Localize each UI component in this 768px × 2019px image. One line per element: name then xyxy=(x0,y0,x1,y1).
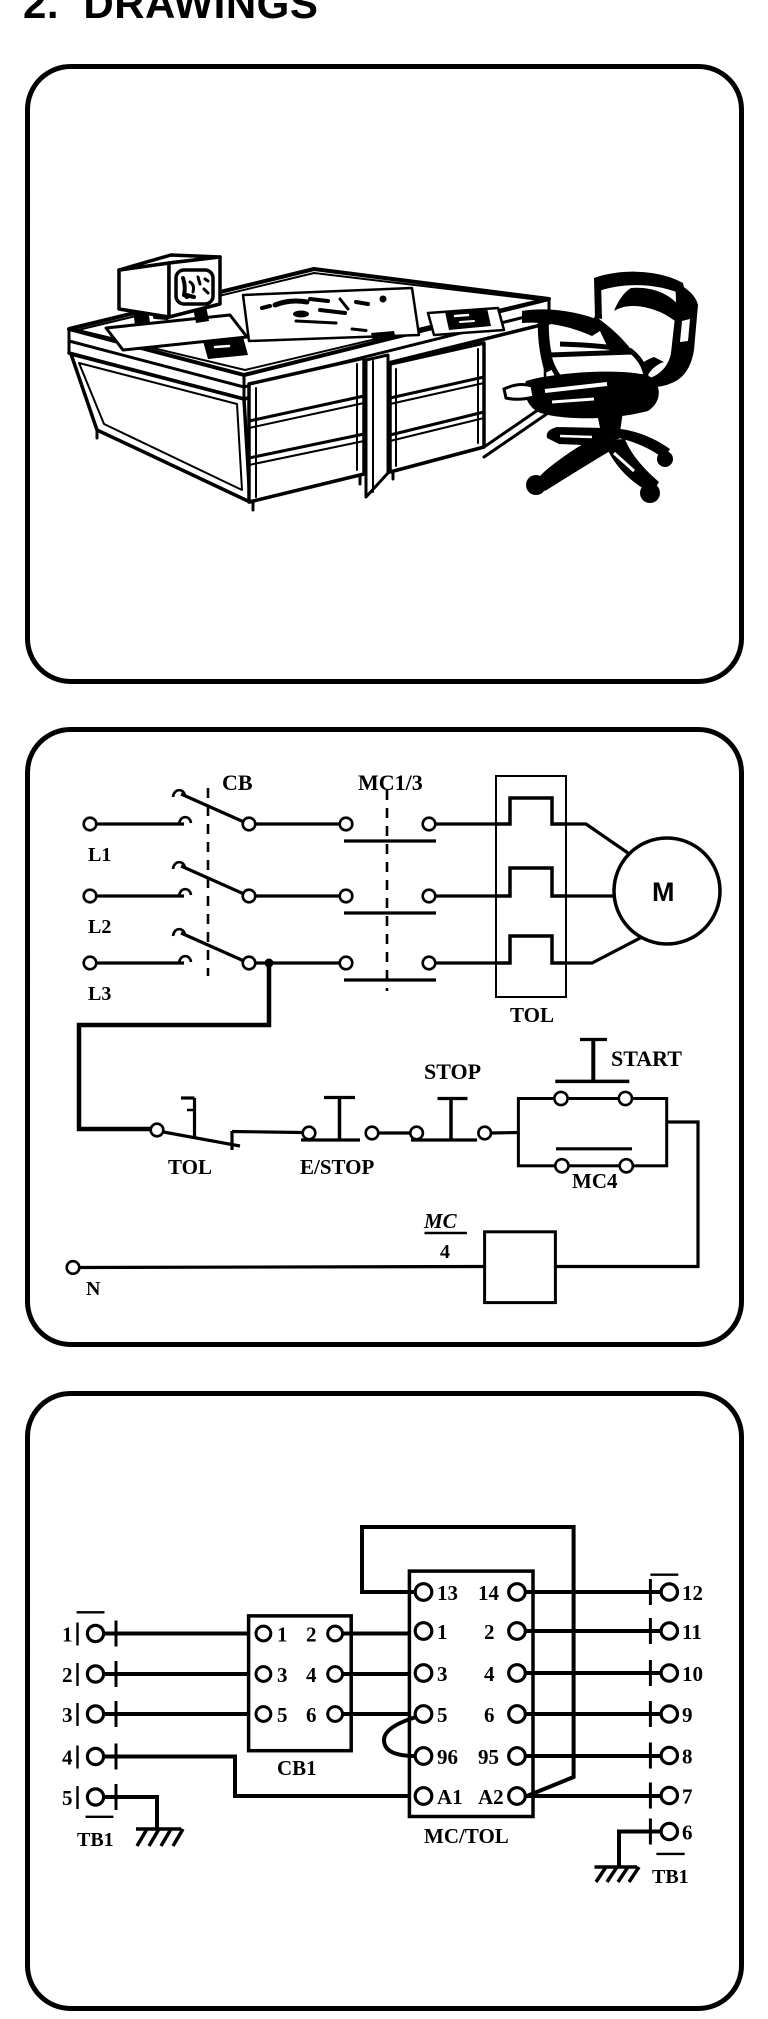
svg-text:10: 10 xyxy=(682,1662,703,1686)
chair back post xyxy=(594,316,639,373)
TB1 right tick 11 xyxy=(649,1618,652,1644)
monitor front bezel xyxy=(169,257,220,317)
junction L3 xyxy=(265,959,274,968)
MC4 top-right terminal xyxy=(619,1092,632,1105)
wire CB1 to MC/TOL xyxy=(343,1672,416,1676)
wire L3 to CB xyxy=(97,961,185,964)
wire MC to TOL L1 xyxy=(436,822,497,825)
E/STOP plunger xyxy=(338,1098,342,1139)
wire STOP to MC4 box xyxy=(491,1131,518,1135)
svg-text:MC4: MC4 xyxy=(572,1169,618,1193)
TB1 right terminal 12 xyxy=(661,1584,677,1600)
dark item on desk left xyxy=(203,337,248,359)
MC/TOL terminal 2 xyxy=(509,1623,526,1640)
TB1 right tick 12 xyxy=(649,1579,652,1605)
E/STOP contact bar xyxy=(301,1138,360,1141)
MC/TOL block xyxy=(409,1571,533,1816)
chair left arm support xyxy=(538,313,556,373)
wire CB1 to MC/TOL xyxy=(343,1712,416,1716)
TOL heater L3 xyxy=(496,936,566,963)
chair backrest left edge xyxy=(594,278,602,319)
chair base leg right xyxy=(614,429,670,459)
svg-text:MC/TOL: MC/TOL xyxy=(424,1824,509,1848)
CB pole L1 lower jaw xyxy=(179,817,191,824)
wire MC to TOL L3 xyxy=(436,961,497,964)
svg-text:4: 4 xyxy=(484,1662,495,1686)
CB pole L2 blade xyxy=(181,866,244,894)
svg-text:STOP: STOP xyxy=(424,1059,481,1084)
MC/TOL terminal 13 xyxy=(415,1584,432,1601)
svg-text:2: 2 xyxy=(62,1663,73,1687)
wire TB1 to CB1 xyxy=(104,1632,256,1636)
svg-text:TOL: TOL xyxy=(510,1003,554,1027)
chair caster left xyxy=(526,475,546,495)
wire CB to MC contact L3 xyxy=(256,961,340,964)
chair seat xyxy=(549,352,646,387)
TOL NC contact tick xyxy=(187,1109,195,1112)
chair post xyxy=(597,411,623,441)
chair left armrest xyxy=(522,309,600,336)
MC contact L3 bar xyxy=(344,978,436,981)
START plunger xyxy=(591,1040,595,1082)
desk right drawer pedestal xyxy=(390,343,484,472)
TB1 left terminal 3 xyxy=(87,1706,103,1722)
svg-text:TB1: TB1 xyxy=(652,1866,689,1888)
CB1 terminal 2 xyxy=(328,1626,343,1641)
svg-text:4: 4 xyxy=(306,1663,317,1687)
START plunger top xyxy=(580,1038,607,1041)
wire CB1 to MC/TOL xyxy=(343,1632,416,1636)
E/STOP button cap xyxy=(324,1096,355,1099)
node L3 terminal xyxy=(84,957,97,970)
CB1 terminal 4 xyxy=(328,1667,343,1682)
TB1 right tick 7 xyxy=(649,1783,652,1809)
TB1 left tick 4 xyxy=(115,1744,118,1770)
CB1 terminal 1 xyxy=(256,1626,271,1641)
svg-text:9: 9 xyxy=(682,1703,693,1727)
wire L2 to CB xyxy=(97,894,185,897)
chair backrest inner swoosh xyxy=(614,288,679,321)
TOL NC contact blade xyxy=(164,1132,241,1146)
MC contact L1 left terminal xyxy=(340,818,353,831)
MC contact L2 right terminal xyxy=(423,890,436,903)
CB pole L3 upper jaw xyxy=(173,929,185,936)
wire TB1 to CB1 xyxy=(104,1672,256,1676)
svg-text:3: 3 xyxy=(437,1662,448,1686)
TB1 left tick 5 xyxy=(115,1784,118,1810)
CB pole L1 upper jaw xyxy=(173,790,185,797)
STOP plunger xyxy=(449,1100,453,1140)
CB1 terminal 5 xyxy=(256,1707,271,1722)
wire CB to MC contact L1 xyxy=(256,822,340,825)
chair under-seat mechanism xyxy=(525,372,659,419)
monitor stand legs xyxy=(133,308,150,325)
MC contact L3 right terminal xyxy=(423,957,436,970)
desk right end legs xyxy=(484,401,551,447)
svg-text:L2: L2 xyxy=(88,916,111,938)
chair backrest top band xyxy=(594,272,686,296)
CB pole L1 blade xyxy=(181,794,244,822)
panel 1 border xyxy=(28,67,742,682)
svg-text:1: 1 xyxy=(277,1623,288,1647)
svg-text:L1: L1 xyxy=(88,844,111,866)
TOL heater L1 xyxy=(496,798,566,824)
wire MC to TOL L2 xyxy=(436,894,497,897)
CB pole L2 upper jaw xyxy=(173,862,185,869)
CB pole L3 pivot terminal xyxy=(243,957,256,970)
wire E/STOP to STOP xyxy=(378,1131,410,1134)
svg-text:5: 5 xyxy=(62,1786,73,1810)
svg-text:13: 13 xyxy=(437,1581,458,1605)
wire MC/TOL to TB1 right xyxy=(525,1590,661,1594)
svg-text:CB1: CB1 xyxy=(277,1756,317,1780)
office chair xyxy=(504,272,698,503)
TB1 left tick 3 xyxy=(115,1701,118,1727)
svg-text:6: 6 xyxy=(484,1703,495,1727)
monitor left face xyxy=(119,263,169,317)
svg-text:L3: L3 xyxy=(88,983,111,1005)
svg-text:START: START xyxy=(611,1046,682,1071)
motor M xyxy=(614,838,720,944)
page title xyxy=(23,0,318,28)
TB1 left terminal 5 xyxy=(87,1789,103,1805)
wire TB1-6 to ground xyxy=(619,1832,661,1867)
svg-text:5: 5 xyxy=(437,1703,448,1727)
MC4 top-left terminal xyxy=(554,1092,567,1105)
TB1 right tick 10 xyxy=(649,1660,652,1686)
svg-text:4: 4 xyxy=(62,1746,73,1770)
monitor pad on desk xyxy=(106,315,247,350)
MC/TOL terminal 5 xyxy=(415,1706,432,1723)
TB1 right terminal 10 xyxy=(661,1665,677,1681)
panel 2 border xyxy=(28,730,742,1345)
paper scribbles xyxy=(262,296,387,324)
CB linkage dashed line xyxy=(207,788,210,976)
node L1 terminal xyxy=(84,818,97,831)
svg-text:3: 3 xyxy=(277,1663,288,1687)
TB1 right tick 9 xyxy=(649,1701,652,1727)
calculator on notepad xyxy=(445,308,491,330)
svg-text:4: 4 xyxy=(440,1241,450,1263)
svg-text:3: 3 xyxy=(62,1703,73,1727)
svg-text:6: 6 xyxy=(682,1821,693,1845)
svg-text:11: 11 xyxy=(682,1620,702,1644)
CB1 block xyxy=(249,1616,352,1751)
TB1 right tick 6 xyxy=(649,1819,652,1845)
svg-text:E/STOP: E/STOP xyxy=(300,1155,374,1179)
wire TB1-5 to ground xyxy=(104,1797,157,1829)
TB1 right terminal 11 xyxy=(661,1623,677,1639)
svg-text:TOL: TOL xyxy=(168,1155,212,1179)
wire TOL to motor mid xyxy=(566,894,614,897)
E/STOP left terminal xyxy=(303,1127,316,1140)
wire TOL to E/STOP xyxy=(232,1132,303,1133)
TOL NC contact bar xyxy=(193,1098,196,1139)
MC contact L2 left terminal xyxy=(340,890,353,903)
MC4 parallel box xyxy=(518,1099,666,1166)
MC4 holding contact bar xyxy=(556,1147,632,1150)
MC/TOL terminal 6 xyxy=(509,1706,526,1723)
TB1 left top bracket xyxy=(77,1611,105,1613)
TB1 right terminal 6 xyxy=(661,1823,677,1839)
TOL NC right stub xyxy=(230,1131,233,1150)
STOP right terminal xyxy=(478,1127,491,1140)
CB pole L1 pivot terminal xyxy=(243,818,256,831)
chair caster bottom xyxy=(640,483,660,503)
TOL heater L2 xyxy=(496,868,566,896)
MC/TOL terminal A1 xyxy=(415,1788,432,1805)
desk center drawer pedestal xyxy=(249,358,364,502)
svg-text:A1: A1 xyxy=(437,1785,463,1809)
TB1 right bottom bracket xyxy=(656,1853,684,1855)
svg-text:MC: MC xyxy=(423,1209,458,1233)
STOP contact bar xyxy=(411,1138,477,1141)
svg-text:5: 5 xyxy=(277,1703,288,1727)
MC/TOL terminal 4 xyxy=(509,1665,526,1682)
wire L3 down to control circuit xyxy=(79,963,269,1129)
chair arm cross strut xyxy=(560,344,632,351)
CB pole L3 blade xyxy=(181,933,244,961)
TB1 right terminal 8 xyxy=(661,1747,677,1763)
ground right xyxy=(595,1865,638,1869)
svg-text:95: 95 xyxy=(478,1745,499,1769)
CB pole L2 pivot terminal xyxy=(243,890,256,903)
panel 3 border xyxy=(28,1394,742,2009)
TB1 left terminal 2 xyxy=(87,1666,103,1682)
desk left front panel xyxy=(71,354,250,502)
chair adjustment lever xyxy=(504,385,534,400)
jumper 5 to 96 xyxy=(384,1717,416,1756)
desk top surface xyxy=(69,269,549,375)
wire TB1 to CB1 xyxy=(104,1712,256,1716)
wire MC/TOL to TB1 right xyxy=(525,1712,661,1716)
chair caster right xyxy=(657,451,673,467)
svg-text:1: 1 xyxy=(437,1620,448,1644)
monitor top face xyxy=(119,255,220,270)
svg-text:8: 8 xyxy=(682,1745,693,1769)
TB1 left tick 2 xyxy=(115,1661,118,1687)
chair under-seat highlights xyxy=(545,384,607,391)
desk feet xyxy=(252,502,255,510)
desk top rim band xyxy=(69,311,549,387)
wire MC/TOL to TB1 right xyxy=(525,1754,661,1758)
TB1 right top bracket xyxy=(650,1573,678,1575)
CB1 terminal 3 xyxy=(256,1667,271,1682)
svg-text:2: 2 xyxy=(306,1623,317,1647)
paper sheet on desk xyxy=(243,288,419,341)
TB1 left bottom bracket xyxy=(86,1816,114,1818)
wire TOL to motor bottom xyxy=(566,936,644,963)
MC/TOL terminal 96 xyxy=(415,1748,432,1765)
wire TOL to motor top xyxy=(566,824,628,853)
CB pole L2 lower jaw xyxy=(179,889,191,896)
node L2 terminal xyxy=(84,890,97,903)
MC1/3 linkage dashed line xyxy=(386,790,389,991)
MC/TOL terminal 3 xyxy=(415,1665,432,1682)
MC contact L1 right terminal xyxy=(423,818,436,831)
START button cap xyxy=(555,1080,629,1084)
MC/TOL terminal 95 xyxy=(509,1748,526,1765)
monitor screen scribbles xyxy=(183,277,208,299)
svg-text:14: 14 xyxy=(478,1581,500,1605)
svg-text:N: N xyxy=(86,1278,101,1300)
TOL NC contact top hook xyxy=(181,1096,195,1099)
svg-text:TB1: TB1 xyxy=(77,1829,114,1851)
STOP button cap xyxy=(438,1097,468,1100)
CB pole L3 lower jaw xyxy=(179,956,191,963)
STOP left terminal xyxy=(410,1127,423,1140)
wire MC4 to coil xyxy=(555,1122,698,1267)
MC4 bottom-right terminal xyxy=(620,1159,633,1172)
TB1 right terminal 7 xyxy=(661,1787,677,1803)
small desk items xyxy=(371,331,396,341)
wire MC/TOL to TB1 right xyxy=(525,1671,661,1675)
chair base leg lower-left xyxy=(534,434,612,491)
chair backrest right slot xyxy=(680,319,690,342)
MC contact L3 left terminal xyxy=(340,957,353,970)
svg-text:6: 6 xyxy=(306,1703,317,1727)
monitor screen xyxy=(176,270,213,304)
node N terminal xyxy=(67,1261,80,1274)
coil MC/4 box xyxy=(485,1232,556,1303)
chair right arm loop xyxy=(628,357,664,388)
ground left xyxy=(136,1827,181,1831)
chair backrest right column xyxy=(650,282,698,387)
chair base highlights xyxy=(560,436,592,437)
E/STOP right terminal xyxy=(366,1127,379,1140)
TB1 right tick 8 xyxy=(649,1743,652,1769)
wire CB to MC contact L2 xyxy=(256,894,340,897)
wire L1 to CB xyxy=(97,822,185,825)
svg-text:1: 1 xyxy=(62,1623,73,1647)
TOL overload block xyxy=(496,776,566,997)
TB1 right terminal 9 xyxy=(661,1706,677,1722)
TB1 left terminal 1 xyxy=(87,1625,103,1641)
svg-text:MC1/3: MC1/3 xyxy=(358,770,423,795)
svg-text:M: M xyxy=(652,877,675,907)
svg-text:2: 2 xyxy=(484,1620,495,1644)
TOL NC contact terminal xyxy=(151,1124,164,1137)
wire MC/TOL to TB1 right xyxy=(525,1794,661,1798)
CB1 terminal 6 xyxy=(328,1707,343,1722)
svg-text:96: 96 xyxy=(437,1745,458,1769)
TB1 left tick 1 xyxy=(115,1621,118,1647)
chair base leg down xyxy=(604,439,659,493)
svg-text:12: 12 xyxy=(682,1581,703,1605)
MC/TOL terminal 14 xyxy=(509,1584,526,1601)
MC contact L2 bar xyxy=(344,911,436,914)
svg-text:CB: CB xyxy=(222,770,253,795)
wire MC/TOL to TB1 right xyxy=(525,1629,661,1633)
TB1 left terminal 4 xyxy=(87,1748,103,1764)
notepad on desk right xyxy=(428,308,504,335)
svg-text:7: 7 xyxy=(682,1785,693,1809)
MC/TOL terminal 1 xyxy=(415,1623,432,1640)
MC/TOL terminal A2 xyxy=(509,1788,526,1805)
wire loop 13 to A2 xyxy=(362,1527,574,1797)
chair base leg left xyxy=(547,427,606,446)
MC4 bottom-left terminal xyxy=(555,1159,568,1172)
wire N to coil xyxy=(79,1267,484,1268)
wire TB1-4 to A1 xyxy=(104,1757,416,1797)
svg-text:A2: A2 xyxy=(478,1785,504,1809)
MC contact L1 bar xyxy=(344,839,436,842)
desk kneehole xyxy=(366,355,388,497)
